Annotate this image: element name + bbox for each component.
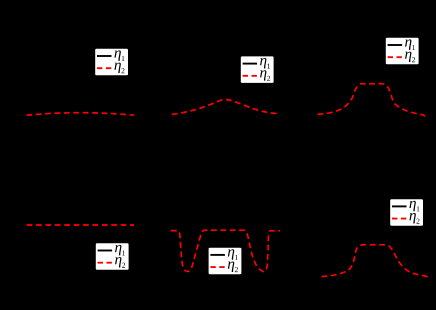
legend subplot bottom-left (96, 243, 129, 269)
legend subplot bottom-right (390, 199, 423, 226)
curve eta2 subplot bottom-left (27, 224, 134, 226)
curve eta2 subplot bottom-right (322, 245, 430, 278)
legend subplot top-middle (241, 56, 274, 83)
legend subplot top-right (386, 38, 419, 65)
legend subplot bottom-middle (209, 248, 242, 275)
curve eta2 subplot top-middle (172, 99, 280, 114)
curve eta2 subplot top-right (318, 84, 425, 117)
curve eta2 subplot bottom-middle (171, 230, 280, 271)
legend subplot top-left (95, 49, 128, 76)
curve eta2 subplot top-left (26, 113, 134, 116)
